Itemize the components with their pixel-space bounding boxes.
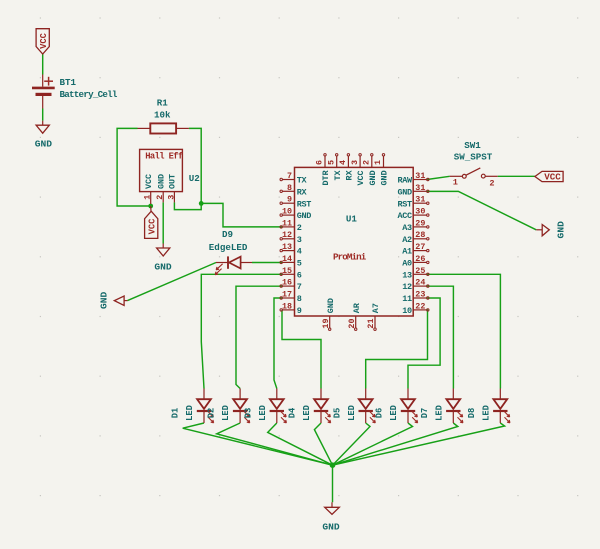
svg-text:GND: GND bbox=[297, 211, 312, 221]
svg-text:GND: GND bbox=[398, 187, 413, 197]
svg-text:DTR: DTR bbox=[321, 169, 331, 185]
svg-text:31: 31 bbox=[415, 183, 425, 193]
svg-text:GND: GND bbox=[154, 262, 172, 273]
svg-text:22: 22 bbox=[415, 301, 425, 311]
svg-text:9: 9 bbox=[297, 306, 302, 316]
svg-text:4: 4 bbox=[338, 160, 348, 165]
svg-text:6: 6 bbox=[297, 270, 302, 280]
svg-text:RX: RX bbox=[345, 169, 355, 180]
svg-text:10: 10 bbox=[282, 207, 292, 217]
svg-text:GND: GND bbox=[98, 292, 109, 310]
svg-text:10k: 10k bbox=[154, 109, 171, 120]
svg-text:11: 11 bbox=[282, 218, 292, 228]
svg-text:RST: RST bbox=[297, 199, 312, 209]
svg-text:12: 12 bbox=[282, 230, 292, 240]
svg-text:25: 25 bbox=[415, 266, 425, 276]
svg-text:11: 11 bbox=[402, 294, 412, 304]
svg-text:GND: GND bbox=[322, 522, 340, 533]
svg-text:TX: TX bbox=[297, 176, 308, 186]
svg-text:15: 15 bbox=[282, 266, 292, 276]
svg-text:16: 16 bbox=[282, 278, 292, 288]
svg-text:2: 2 bbox=[297, 223, 302, 233]
svg-text:Battery_Cell: Battery_Cell bbox=[60, 89, 118, 100]
svg-text:VCC: VCC bbox=[144, 174, 154, 189]
svg-text:Hall Eff: Hall Eff bbox=[145, 152, 183, 162]
svg-text:8: 8 bbox=[287, 183, 292, 193]
svg-text:1: 1 bbox=[453, 178, 458, 188]
svg-text:1: 1 bbox=[373, 160, 383, 165]
svg-text:7: 7 bbox=[287, 171, 292, 181]
svg-text:14: 14 bbox=[282, 254, 292, 264]
svg-text:13: 13 bbox=[402, 270, 412, 280]
svg-text:OUT: OUT bbox=[168, 174, 178, 189]
svg-text:VCC: VCC bbox=[39, 32, 49, 49]
svg-text:10: 10 bbox=[402, 306, 412, 316]
svg-text:SW1: SW1 bbox=[464, 140, 481, 151]
svg-text:GND: GND bbox=[326, 298, 336, 313]
svg-text:12: 12 bbox=[402, 282, 412, 292]
svg-text:27: 27 bbox=[415, 242, 425, 252]
svg-text:GND: GND bbox=[368, 170, 378, 185]
svg-text:13: 13 bbox=[282, 242, 292, 252]
svg-text:19: 19 bbox=[321, 319, 331, 329]
svg-text:SW_SPST: SW_SPST bbox=[454, 152, 493, 163]
svg-text:6: 6 bbox=[315, 160, 325, 165]
svg-text:21: 21 bbox=[366, 319, 376, 329]
svg-text:VCC: VCC bbox=[147, 218, 157, 235]
svg-text:LED: LED bbox=[389, 405, 399, 421]
svg-text:9: 9 bbox=[287, 195, 292, 205]
svg-text:A2: A2 bbox=[402, 235, 412, 245]
svg-text:AR: AR bbox=[352, 302, 362, 313]
svg-text:D5: D5 bbox=[332, 408, 342, 419]
svg-text:D6: D6 bbox=[375, 408, 385, 419]
svg-text:29: 29 bbox=[415, 218, 425, 228]
svg-text:VCC: VCC bbox=[356, 170, 366, 185]
svg-text:GND: GND bbox=[555, 221, 566, 239]
svg-text:LED: LED bbox=[302, 405, 312, 421]
svg-text:VCC: VCC bbox=[544, 172, 561, 183]
svg-text:RST: RST bbox=[398, 199, 413, 209]
svg-text:A7: A7 bbox=[371, 303, 381, 313]
svg-text:GND: GND bbox=[380, 170, 390, 185]
svg-text:D7: D7 bbox=[420, 408, 430, 419]
svg-text:EdgeLED: EdgeLED bbox=[209, 242, 248, 253]
svg-text:A0: A0 bbox=[402, 259, 412, 269]
svg-text:7: 7 bbox=[297, 282, 302, 292]
svg-text:D4: D4 bbox=[288, 407, 298, 418]
svg-text:U2: U2 bbox=[189, 173, 200, 184]
svg-text:RX: RX bbox=[297, 187, 308, 197]
svg-text:8: 8 bbox=[297, 294, 302, 304]
svg-text:2: 2 bbox=[489, 178, 494, 188]
svg-text:2: 2 bbox=[155, 195, 165, 200]
svg-text:R1: R1 bbox=[157, 97, 169, 108]
svg-text:23: 23 bbox=[415, 290, 425, 300]
svg-text:A3: A3 bbox=[402, 223, 412, 233]
svg-text:26: 26 bbox=[415, 254, 425, 264]
svg-text:31: 31 bbox=[415, 171, 425, 181]
svg-text:TX: TX bbox=[333, 169, 343, 180]
svg-text:RAW: RAW bbox=[398, 176, 414, 186]
svg-text:3: 3 bbox=[297, 235, 302, 245]
svg-text:3: 3 bbox=[350, 160, 360, 165]
svg-text:2: 2 bbox=[362, 160, 372, 165]
svg-text:LED: LED bbox=[434, 405, 444, 421]
svg-text:24: 24 bbox=[415, 278, 425, 288]
svg-text:GND: GND bbox=[156, 174, 166, 189]
svg-text:LED: LED bbox=[481, 405, 491, 421]
svg-text:LED: LED bbox=[347, 405, 357, 421]
svg-text:GND: GND bbox=[35, 139, 53, 150]
svg-text:D9: D9 bbox=[222, 229, 233, 240]
svg-text:5: 5 bbox=[297, 259, 302, 269]
svg-text:3: 3 bbox=[166, 195, 176, 200]
svg-text:U1: U1 bbox=[346, 214, 358, 225]
svg-text:BT1: BT1 bbox=[60, 77, 77, 88]
svg-text:5: 5 bbox=[326, 160, 336, 165]
svg-text:ProMini: ProMini bbox=[333, 252, 367, 263]
svg-text:4: 4 bbox=[297, 247, 302, 257]
svg-text:28: 28 bbox=[415, 230, 425, 240]
svg-text:20: 20 bbox=[347, 319, 357, 329]
svg-text:ACC: ACC bbox=[398, 211, 413, 221]
svg-text:17: 17 bbox=[282, 290, 292, 300]
svg-text:1: 1 bbox=[143, 195, 153, 200]
svg-text:D3: D3 bbox=[243, 408, 253, 419]
svg-text:D8: D8 bbox=[467, 408, 477, 419]
svg-text:LED: LED bbox=[221, 405, 231, 421]
svg-text:31: 31 bbox=[415, 195, 425, 205]
svg-text:A1: A1 bbox=[402, 247, 412, 257]
svg-text:LED: LED bbox=[258, 405, 268, 421]
svg-text:D1: D1 bbox=[171, 408, 181, 419]
svg-text:D2: D2 bbox=[207, 408, 217, 419]
svg-text:30: 30 bbox=[415, 207, 425, 217]
svg-text:18: 18 bbox=[282, 301, 292, 311]
svg-text:LED: LED bbox=[185, 405, 195, 421]
